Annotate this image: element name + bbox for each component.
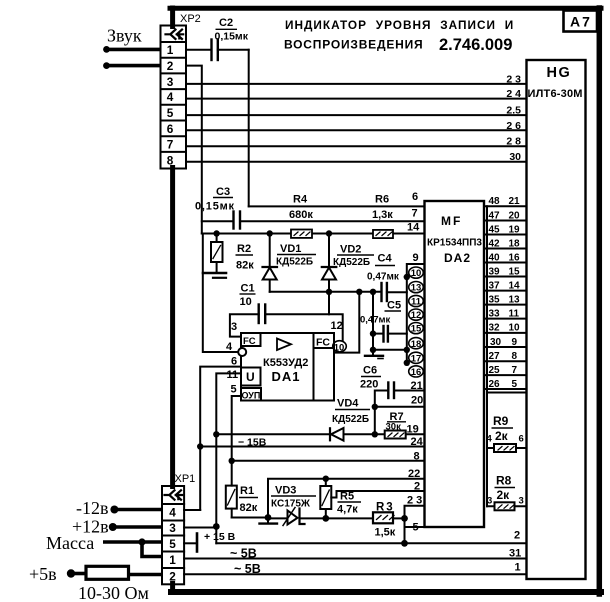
svg-text:2: 2 (167, 59, 174, 73)
svg-text:30: 30 (490, 337, 502, 348)
resistor R6 body (373, 230, 393, 238)
svg-text:КД522Б: КД522Б (276, 257, 313, 268)
display HG box (527, 60, 586, 579)
svg-text:Звук: Звук (107, 26, 142, 46)
junction dot R5 top (323, 476, 329, 482)
junction dot R5 bottom (322, 515, 329, 522)
DA2 pin 17 oval (409, 352, 424, 363)
svg-text:2 4: 2 4 (506, 88, 521, 100)
wire R1 bottom to VD3 node (232, 517, 268, 519)
svg-text:20: 20 (411, 395, 423, 407)
svg-text:19: 19 (407, 424, 419, 436)
capacitor C1 (258, 305, 260, 324)
wire sound input 1 (105, 48, 161, 52)
svg-text:24: 24 (411, 436, 424, 448)
R5 tap to DA2 pin 2 (331, 491, 424, 498)
junction dot VD2 anode (326, 289, 332, 295)
svg-text:R1: R1 (240, 485, 254, 497)
junction dot rail 362 (404, 360, 410, 366)
wire XP2 pin6 to HG 26 (186, 129, 527, 131)
svg-text:VD4: VD4 (337, 398, 359, 410)
svg-text:9: 9 (413, 252, 419, 264)
wire XP1 pin3 (184, 527, 216, 529)
svg-text:21: 21 (509, 196, 521, 207)
border frame left lower segment (170, 584, 175, 593)
border frame left upper segment (170, 8, 175, 27)
svg-text:2: 2 (414, 481, 420, 493)
terminal dot sound 2 (103, 62, 110, 69)
svg-text:48: 48 (489, 196, 501, 207)
junction dot R2-bus (213, 230, 219, 236)
svg-text:6: 6 (167, 122, 174, 136)
wire XP2 pin8 to HG 30 (186, 161, 527, 163)
wire main bus to DA2 pin 14 (202, 233, 425, 235)
svg-text:R4: R4 (293, 194, 308, 206)
svg-text:21: 21 (411, 380, 423, 392)
svg-text:6: 6 (412, 191, 418, 203)
border frame top (170, 6, 601, 11)
svg-text:4,7к: 4,7к (337, 504, 358, 516)
svg-text:15: 15 (509, 266, 521, 277)
svg-text:13: 13 (411, 283, 422, 294)
ladder pin numbers (489, 196, 521, 390)
svg-text:КД522Б: КД522Б (332, 414, 369, 425)
capacitor C5 (382, 326, 384, 342)
wire C6 right to DA2 pin21 (394, 390, 425, 392)
svg-text:2.746.009: 2.746.009 (439, 36, 512, 54)
svg-text:2 3: 2 3 (407, 495, 422, 507)
svg-text:40: 40 (489, 252, 501, 263)
svg-text:12: 12 (331, 320, 343, 332)
junction dot C4 left rail (370, 289, 376, 295)
resistor R9 (487, 447, 527, 449)
svg-text:16: 16 (411, 367, 422, 378)
wire DA2 pin 8 (232, 460, 425, 462)
svg-text:5: 5 (169, 537, 176, 551)
svg-text:8: 8 (167, 154, 174, 168)
svg-text:20: 20 (509, 210, 521, 221)
wire bus down to DA1 pin4 (203, 234, 238, 353)
svg-text:6: 6 (519, 434, 524, 445)
wire C1 left to DA1 pin3 (230, 314, 259, 336)
junction dot Macca (138, 538, 145, 545)
wire XP2 pin7 to HG 28 (186, 145, 527, 147)
svg-text:32: 32 (489, 323, 501, 334)
wire R4 line to DA2 pin 6 (249, 205, 425, 207)
resistor R1 (trimmer) (226, 486, 237, 509)
svg-text:R9: R9 (493, 414, 509, 428)
wire output VD4 line (216, 433, 424, 435)
op-amp DA1 (241, 333, 334, 401)
wire DA2 pin 22 (268, 479, 425, 518)
svg-text:2.5: 2.5 (506, 105, 521, 117)
svg-text:DA2: DA2 (444, 251, 471, 265)
resistor R2 (trimmer) (216, 234, 218, 243)
svg-text:11: 11 (227, 369, 239, 381)
svg-text:К553УД2: К553УД2 (263, 357, 308, 369)
svg-text:8: 8 (414, 451, 420, 463)
wire C2 vertical down to R4 line (248, 50, 250, 207)
wire XP1 pin4 (184, 509, 200, 511)
svg-text:КД522Б: КД522Б (333, 257, 370, 268)
svg-text:14: 14 (509, 280, 521, 291)
svg-text:11: 11 (411, 297, 422, 308)
svg-text:1,5к: 1,5к (375, 527, 396, 539)
DA2-HG pin ladder (484, 206, 527, 506)
border frame left mid segment (170, 168, 175, 487)
svg-text:R6: R6 (375, 194, 389, 206)
svg-text:17: 17 (411, 353, 422, 364)
junction dot +15V line (401, 540, 408, 547)
svg-text:10: 10 (240, 296, 252, 308)
svg-text:3: 3 (487, 496, 492, 507)
svg-text:14: 14 (407, 222, 420, 234)
wire C6 left (375, 391, 389, 435)
wire common to rail (373, 349, 407, 351)
svg-text:31: 31 (509, 548, 521, 560)
svg-text:0,15мк: 0,15мк (215, 31, 249, 43)
DA1 pin 10 oval (333, 341, 347, 352)
diode VD1 (269, 234, 271, 268)
svg-text:7: 7 (167, 138, 174, 152)
svg-text:5: 5 (413, 522, 419, 534)
svg-text:U: U (246, 370, 255, 384)
wire C5 right (388, 333, 407, 335)
svg-text:ИНДИКАТОР УРОВНЯ ЗАПИСИ И: ИНДИКАТОР УРОВНЯ ЗАПИСИ И (285, 18, 514, 32)
wire VD2 to DA1 pin12 (334, 292, 359, 353)
wire R3 left (326, 517, 373, 519)
shield contact XP1 pin5 (184, 542, 195, 544)
svg-text:2 8: 2 8 (506, 136, 521, 148)
svg-text:7: 7 (512, 365, 518, 376)
wire R3 right / DA2 pin 23 (405, 506, 425, 544)
diode VD2 (328, 234, 330, 268)
terminal dot sound 1 (103, 46, 110, 53)
IC DA2 box (425, 201, 485, 527)
svg-text:15: 15 (411, 324, 422, 335)
ground bar R2 (203, 272, 226, 275)
svg-text:FC: FC (243, 336, 256, 347)
junction dot VD1-bus (267, 230, 273, 236)
wire C4 right to pin9 rail (387, 291, 407, 293)
wire sound input 2 (105, 64, 161, 68)
svg-text:1: 1 (167, 43, 174, 57)
junction dot R3 right (401, 515, 408, 522)
svg-text:2 3: 2 3 (506, 74, 521, 86)
svg-text:19: 19 (509, 224, 521, 235)
junction dot C5 ground node (370, 347, 376, 353)
wire C5 left (373, 333, 384, 335)
XP1 pin numbers (169, 506, 176, 584)
capacitor C6 (387, 383, 389, 399)
svg-text:39: 39 (489, 266, 501, 277)
DA2 pin 11 oval (409, 295, 424, 306)
wire XP1 pin2 to HG 1 (184, 573, 526, 575)
wire C3 right to DA2 pin 7 (240, 220, 425, 222)
DA2 pin 16 oval (409, 366, 424, 377)
svg-text:2к: 2к (497, 488, 511, 502)
svg-text:4: 4 (487, 434, 493, 445)
connector XP1 box (162, 486, 184, 584)
ground bar C5 node (372, 350, 374, 355)
wire C3 left (202, 220, 234, 222)
wire resistor to XP1 pin2 (129, 573, 163, 577)
junction dot rail 349 (404, 347, 410, 353)
svg-text:VD2: VD2 (340, 244, 361, 256)
svg-text:1,3к: 1,3к (372, 209, 393, 221)
svg-text:C6: C6 (363, 365, 377, 377)
DA2 pin 13 oval (409, 282, 424, 293)
svg-text:5: 5 (167, 106, 174, 120)
DA2 pin 15 oval (409, 323, 424, 334)
wire -12v (113, 508, 162, 512)
svg-text:ВОСПРОИЗВЕДЕНИЯ: ВОСПРОИЗВЕДЕНИЯ (284, 38, 423, 52)
connector XP2 box (161, 26, 187, 169)
svg-text:10: 10 (334, 342, 345, 353)
svg-text:C4: C4 (378, 253, 393, 265)
wire XP2 pin4 to HG 24 (186, 98, 527, 100)
border frame bottom (171, 589, 601, 595)
capacitor C4 (380, 283, 382, 301)
junction dot pin9 rail top (404, 274, 410, 280)
svg-text:47: 47 (489, 210, 501, 221)
svg-text:2к: 2к (495, 429, 509, 443)
wire XP2 pin2 right stub (186, 66, 202, 234)
svg-text:12: 12 (411, 310, 422, 321)
wire XP2 pin3 to HG 23 (186, 83, 527, 85)
svg-text:18: 18 (411, 339, 422, 350)
junction dot XP1 pin3 (213, 523, 220, 530)
svg-text:5: 5 (512, 379, 518, 390)
diode VD4 (329, 428, 331, 440)
svg-text:ИЛТ6-30М: ИЛТ6-30М (528, 88, 583, 100)
svg-text:R5: R5 (340, 491, 354, 503)
svg-text:30к: 30к (386, 422, 402, 433)
svg-text:18: 18 (509, 238, 521, 249)
svg-text:1: 1 (515, 562, 521, 574)
svg-text:30: 30 (509, 151, 521, 163)
connector XP1 socket symbol (165, 490, 183, 499)
svg-text:C3: C3 (216, 186, 230, 198)
svg-text:2: 2 (169, 570, 176, 584)
wire Macca to pin1 (142, 542, 162, 557)
svg-text:3: 3 (231, 321, 237, 333)
svg-text:7: 7 (412, 208, 418, 220)
XP2 pin numbers (167, 43, 174, 168)
wire Macca (103, 540, 162, 544)
svg-text:C2: C2 (219, 17, 233, 29)
resistor R4 body (291, 230, 312, 238)
svg-text:XP2: XP2 (180, 13, 201, 25)
svg-text:82к: 82к (236, 260, 254, 272)
svg-text:11: 11 (509, 308, 520, 319)
svg-text:HG: HG (547, 65, 572, 81)
svg-text:MF: MF (441, 214, 462, 228)
svg-text:9: 9 (512, 337, 518, 348)
wire VD1/VD2 anodes to C4 (270, 291, 382, 293)
wire DA2 pin 20 (375, 406, 425, 408)
svg-text:+5в: +5в (29, 564, 57, 584)
svg-text:220: 220 (360, 379, 378, 391)
svg-text:27: 27 (489, 351, 501, 362)
resistor 10-30 Ом body (86, 566, 129, 579)
junction dot C5 left (370, 330, 376, 336)
svg-text:− 15В: − 15В (238, 437, 267, 449)
svg-text:3: 3 (169, 521, 176, 535)
wire C1 right to DA1 pin10 (265, 314, 343, 341)
HG pin labels left side (506, 74, 521, 164)
svg-text:VD1: VD1 (280, 243, 301, 255)
svg-text:Масса: Масса (46, 533, 94, 553)
capacitor C3 (232, 212, 234, 229)
junction dot pin 8 left (229, 458, 235, 464)
svg-text:XP1: XP1 (175, 473, 196, 485)
terminal dot +5v (67, 569, 75, 577)
terminal dot +12v (109, 523, 117, 531)
svg-text:R8: R8 (496, 474, 512, 488)
wire XP2 pin1 to C2 (186, 49, 212, 51)
resistor R5 (trimmer) (320, 486, 331, 509)
wire +12v (111, 525, 162, 529)
border frame right (597, 8, 603, 594)
svg-text:25: 25 (489, 365, 501, 376)
svg-text:~ 5В: ~ 5В (230, 547, 257, 561)
DA2 pin 12 oval (409, 309, 424, 320)
junction dot VD4 right R7 (372, 431, 378, 437)
svg-text:R3: R3 (376, 502, 395, 514)
svg-text:10: 10 (411, 268, 422, 279)
resistor R3 body (373, 512, 393, 523)
svg-text:КР1534ПП3: КР1534ПП3 (427, 238, 482, 249)
svg-text:~ 5В: ~ 5В (234, 562, 261, 576)
svg-text:-12в: -12в (76, 498, 109, 518)
DA2 pin 18 oval (409, 338, 424, 349)
svg-text:+ 15 В: + 15 В (204, 531, 236, 543)
svg-text:2 6: 2 6 (506, 120, 521, 132)
DA2 pin 10 oval (409, 267, 424, 278)
wire DA2 pin 24 (200, 446, 424, 448)
svg-text:0,47мк: 0,47мк (360, 315, 391, 326)
ground bar VD3 node (267, 518, 269, 523)
junction dot pin12 branch (356, 289, 362, 295)
svg-text:A7: A7 (570, 14, 592, 30)
svg-text:13: 13 (509, 294, 521, 305)
wire +5v left (70, 572, 86, 576)
wire +15V to HG pin 2 (216, 542, 526, 544)
wire DA2 pin 9 (407, 264, 425, 363)
wire DA2 pin 5 (405, 526, 425, 528)
svg-text:DA1: DA1 (272, 369, 301, 384)
svg-text:1: 1 (169, 553, 176, 567)
A7 box (564, 11, 598, 32)
svg-text:2: 2 (514, 530, 520, 542)
svg-text:10: 10 (509, 323, 521, 334)
svg-text:0,15мк: 0,15мк (195, 201, 235, 213)
svg-text:3: 3 (167, 75, 174, 89)
svg-text:37: 37 (489, 280, 501, 291)
svg-text:33: 33 (489, 308, 501, 319)
svg-text:42: 42 (489, 238, 501, 249)
svg-text:680к: 680к (289, 209, 313, 221)
svg-text:КС175Ж: КС175Ж (271, 499, 311, 510)
svg-text:82к: 82к (240, 502, 258, 514)
svg-text:C5: C5 (387, 300, 401, 312)
svg-text:4: 4 (169, 506, 176, 520)
connector XP2 socket symbol (166, 30, 184, 39)
junction dot VD4 left (213, 431, 219, 437)
wire DA1 pin6 down to -12V rail (200, 367, 241, 510)
svg-text:10-30 Ом: 10-30 Ом (78, 583, 149, 602)
inversion circle DA1 pin4 (238, 348, 246, 356)
wire XP1 pin1 to HG 31 (184, 558, 526, 560)
svg-text:4: 4 (167, 90, 174, 104)
svg-text:R2: R2 (237, 243, 251, 255)
svg-text:5: 5 (231, 384, 237, 396)
svg-text:VD3: VD3 (275, 485, 296, 497)
capacitor C2 (210, 40, 212, 61)
resistor R8 (487, 505, 527, 507)
junction dot pin 24 left (197, 443, 203, 449)
wire rail x373 (372, 292, 374, 350)
resistor R7 body (385, 431, 406, 439)
junction dot VD3 left (265, 514, 272, 521)
diode VD3 zener (288, 511, 298, 525)
svg-text:8: 8 (512, 351, 518, 362)
svg-text:45: 45 (489, 224, 501, 235)
svg-text:16: 16 (509, 252, 521, 263)
svg-text:3: 3 (519, 496, 524, 507)
wire DA1 pin5 output down (232, 396, 241, 486)
svg-text:35: 35 (489, 294, 501, 305)
svg-text:ОУП: ОУП (242, 391, 261, 401)
svg-text:FC: FC (316, 337, 330, 349)
junction dot pin20 rail (372, 404, 378, 410)
svg-text:26: 26 (489, 379, 501, 390)
terminal dot -12v (110, 506, 118, 514)
wire C2 right (218, 49, 249, 51)
wire DA1 pin11 to +12V rail (216, 373, 241, 543)
svg-text:0,47мк: 0,47мк (367, 272, 400, 283)
wire XP2 pin5 to HG 25 (186, 114, 527, 116)
junction dot VD2-bus (326, 230, 332, 236)
svg-text:C1: C1 (241, 283, 255, 295)
